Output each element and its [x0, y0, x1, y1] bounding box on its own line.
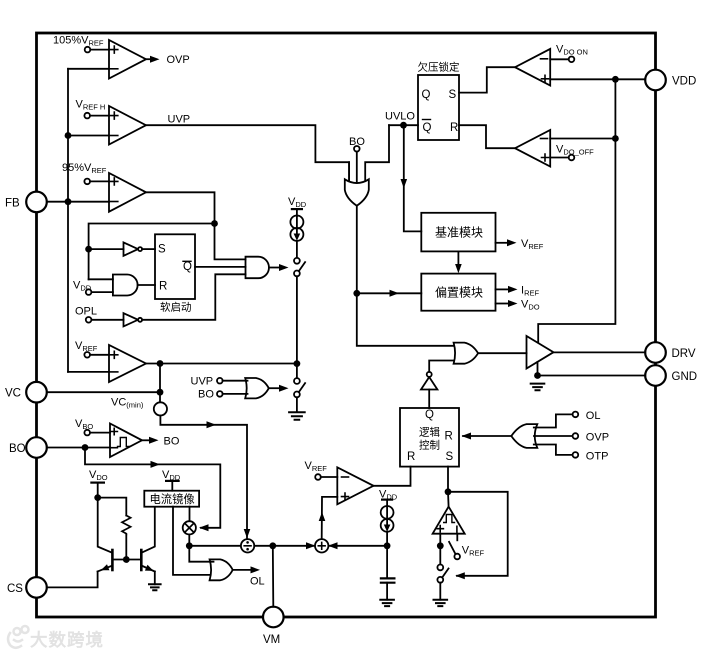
wire U17+ down to main node — [439, 534, 441, 546]
junction dot soft-start S branch — [85, 246, 92, 253]
wire S pin to comparator U7 output — [459, 67, 515, 92]
OR gate U12 (OL/OVP/OTP, pointing left) — [511, 424, 537, 448]
wire VREF terminal to U4+ — [90, 354, 109, 356]
capacitor C1 — [381, 578, 395, 582]
AND gate soft-start R — [89, 275, 155, 296]
wire VREF output of reference block — [496, 238, 544, 251]
wire node to divider — [189, 545, 241, 547]
ground under C1 — [380, 600, 394, 606]
comparator U8 (VDO_OFF, pointing left) — [515, 130, 594, 167]
wire U4 minus — [68, 371, 109, 373]
comparator U4 (VREF / VC section) — [75, 340, 146, 382]
BO terminal above U6 — [349, 136, 365, 182]
junction dot FB bus — [65, 198, 72, 205]
current source I1 (VDD, soft-start) — [288, 196, 307, 258]
switch SW1 (soft-start) — [294, 258, 305, 276]
ground under Q2 — [149, 584, 161, 590]
junction dot bias tap — [353, 290, 360, 297]
wire I2 to main node — [386, 532, 388, 546]
ground under SW3 — [434, 600, 448, 606]
junction dot BO tap — [82, 444, 89, 451]
IC boundary box — [37, 33, 656, 617]
switch SW2 — [294, 364, 305, 412]
wire U4 out down to VC(min) — [159, 364, 161, 403]
pin BO — [9, 437, 47, 458]
current mirror box (电流镜像) — [144, 491, 199, 507]
wire summer up to error amp with arrow — [319, 497, 338, 539]
wire 105%VREF terminal to U1+ — [90, 49, 109, 51]
wire multiplier to main node — [188, 534, 190, 545]
divider circle — [241, 539, 254, 552]
svg-text:Q: Q — [183, 261, 192, 273]
junction dot VC — [157, 389, 164, 396]
svg-text:软启动: 软启动 — [160, 301, 192, 314]
pin GND — [645, 365, 697, 386]
junction dot VDD node top — [612, 76, 619, 83]
comparator U14 (VBO brown-out) — [75, 418, 142, 457]
wire VC pin to node — [47, 391, 160, 393]
wire UVLO down to reference block with arrow — [401, 125, 422, 231]
VC(min) clamp circle — [111, 397, 167, 416]
wire U1 minus — [68, 68, 109, 70]
wire U12 output into R with arrow — [462, 433, 512, 440]
svg-text:VDD: VDD — [672, 76, 696, 88]
svg-text:基准模块: 基准模块 — [435, 226, 483, 240]
comparator U1 OVP (105%VREF) — [53, 35, 146, 79]
AND gate U5 (soft-start enable) — [246, 257, 289, 279]
wire Qbar to AND middle input — [195, 266, 246, 268]
svg-text:逻辑: 逻辑 — [419, 426, 440, 439]
junction dot UVLO — [400, 122, 407, 129]
junction dot VM tap — [269, 542, 276, 549]
svg-text:欠压锁定: 欠压锁定 — [418, 61, 460, 74]
junction dot VDD rail at U8 — [612, 135, 619, 142]
junction dot S node — [445, 488, 452, 495]
svg-text:电流镜像: 电流镜像 — [150, 492, 195, 506]
wire IREF output — [496, 285, 540, 298]
svg-text:S: S — [158, 244, 166, 256]
svg-text:S: S — [446, 451, 454, 463]
feedback wire S node to SW3 with arrow — [448, 492, 508, 580]
junction dot A (214.5,223.5) — [211, 220, 218, 227]
svg-text:R: R — [445, 431, 453, 443]
wire U6 output down to driver OR — [357, 206, 454, 346]
wire BO tap to multiplier with arrow — [85, 448, 220, 532]
wire logic S pin down — [447, 467, 449, 492]
OVP terminal — [534, 432, 609, 444]
wire UVLO branch into U6 — [365, 125, 389, 180]
svg-text:R: R — [407, 451, 415, 463]
comparator U2 UVP (VREF_H) — [76, 99, 147, 145]
pin VC — [5, 382, 47, 403]
wire SW1 down to node B — [296, 276, 298, 363]
svg-text:DRV: DRV — [672, 348, 696, 360]
comparator U7 (VDO_ON, pointing left) — [515, 44, 588, 86]
wire U14 output arrow BO — [142, 436, 180, 448]
wire base Q1-Q2 — [112, 559, 141, 561]
svg-text:FB: FB — [5, 198, 20, 210]
wire mirror box pin to multiplier — [189, 507, 191, 522]
svg-text:BO: BO — [164, 436, 180, 448]
junction dot base node — [123, 556, 130, 563]
junction dot node B — [294, 360, 301, 367]
current source I2 (VDD) — [379, 489, 398, 532]
junction dot VDO node — [94, 494, 101, 501]
svg-text:UVLO: UVLO — [385, 111, 415, 123]
resistor R1 — [122, 516, 131, 535]
pin VM — [263, 607, 284, 646]
svg-text:R: R — [159, 281, 167, 293]
switch SW4 (VREF select) — [449, 542, 484, 559]
svg-text:UVP: UVP — [168, 114, 191, 126]
node bus: inverting-input bus x=68 — [67, 69, 69, 372]
soft-start latch box — [155, 234, 195, 313]
error amp U16 (VREF) — [305, 460, 374, 504]
switch SW3 — [437, 546, 448, 600]
wire OPL to AND bottom input — [142, 274, 245, 320]
OL terminal — [534, 410, 601, 428]
junction dot multiplier out — [186, 542, 193, 549]
wire U2 minus — [68, 135, 109, 137]
svg-text:CS: CS — [7, 583, 23, 595]
wire node down to capacitor C1 — [386, 546, 388, 577]
wire 95%VREF terminal to U3+ — [90, 180, 109, 182]
svg-text:Q: Q — [423, 122, 432, 134]
logic control box (逻辑控制) — [400, 408, 459, 467]
wire C1 to ground — [386, 583, 388, 600]
wire U16 output to logic R pin — [374, 467, 411, 486]
svg-text:VC: VC — [5, 388, 21, 400]
VDO rail (current mirror) — [89, 469, 108, 498]
wire U8- to VDD rail — [550, 138, 615, 140]
transistor Q1 — [98, 498, 113, 572]
wire VDO output — [496, 299, 540, 312]
wire driver gnd node to GND pin — [538, 362, 646, 376]
OR gate U13 (UVP/BO) — [191, 376, 269, 401]
pin CS — [7, 577, 47, 598]
transistor Q2 — [141, 507, 155, 572]
svg-text:BO: BO — [9, 443, 26, 455]
svg-text:OTP: OTP — [586, 451, 609, 463]
UVLO latch box (欠压锁定) — [418, 61, 460, 141]
wire U3 output to soft-start node — [146, 192, 215, 223]
wire divider to summer with arrow — [254, 542, 315, 549]
svg-text:OPL: OPL — [75, 306, 97, 318]
ground under SW2 — [289, 412, 305, 419]
VDD terminal at AND input — [73, 280, 92, 295]
wire FB to U3 minus — [47, 201, 109, 203]
wire mult node to U15 top input — [189, 546, 213, 562]
driver buffer U11 — [527, 336, 554, 369]
svg-text:BO: BO — [198, 389, 214, 401]
OPL input and buffer — [75, 306, 142, 327]
wire U15 output arrow OL — [233, 566, 265, 587]
wire U1 output arrow — [146, 54, 190, 66]
inverter U10 (Q of logic control) — [421, 361, 454, 409]
comparator U3 (95%VREF) — [62, 162, 146, 212]
wire VM tap down to VM pin — [272, 546, 275, 607]
wire node A to soft-start left rail — [89, 224, 215, 280]
wire VDO node to resistor — [98, 498, 127, 516]
svg-text:OL: OL — [586, 410, 601, 422]
wire U17- stub — [456, 534, 458, 541]
junction dot U17+ node — [437, 542, 444, 549]
wire VC(min) to divider with arrow — [160, 416, 250, 539]
wire UVLO node to latch Qbar — [385, 111, 418, 126]
wire reference to bias block arrow — [455, 251, 462, 273]
wire driver to DRV pin — [554, 351, 646, 353]
wire VREF_H terminal to U2+ — [90, 115, 109, 117]
junction dot I2 node — [384, 542, 391, 549]
buffer/inverter S input — [89, 242, 155, 255]
wire resistor to base node — [125, 535, 127, 560]
pin VDD — [645, 70, 696, 91]
junction dot U2 minus — [65, 132, 72, 139]
reference block (基准模块) — [421, 213, 495, 252]
svg-text:大数跨境: 大数跨境 — [30, 630, 104, 650]
svg-text:UVP: UVP — [191, 376, 214, 388]
wire right branch into summer with arrow — [328, 542, 387, 549]
watermark logo — [8, 626, 29, 648]
svg-text:VM: VM — [263, 634, 280, 646]
svg-text:S: S — [449, 89, 457, 101]
wire node A down to AND top input — [215, 224, 246, 260]
wire UVP branch into U6 — [348, 162, 350, 180]
svg-text:OVP: OVP — [167, 54, 190, 66]
pin DRV — [645, 342, 696, 363]
svg-text:OVP: OVP — [586, 432, 609, 444]
pin FB — [5, 192, 47, 213]
wire U7+ to VDD node — [550, 78, 645, 80]
wire Q2 emitter to ground — [154, 572, 156, 585]
wire VDD rail down to driver top input — [538, 79, 615, 342]
junction dot U4 out — [157, 360, 164, 367]
OTP terminal — [534, 445, 609, 463]
wire U17 output to S node — [447, 492, 450, 507]
OR gate U6 (UVP/BO/UVLO, pointing down) — [345, 179, 369, 206]
wire U4 output to switch node — [146, 363, 297, 365]
svg-text:GND: GND — [672, 371, 698, 383]
wire R pin to comparator U8 output — [459, 125, 515, 148]
svg-text:OL: OL — [250, 576, 265, 588]
bias block (偏置模块) — [421, 274, 495, 311]
svg-text:Q: Q — [425, 409, 434, 421]
wire mirror box pin to OL gate — [173, 507, 214, 575]
junction dot driver ground — [534, 372, 541, 379]
ground under driver — [531, 384, 545, 391]
wire CS pin to Q1 emitter — [47, 572, 98, 588]
comparator U17 (hysteresis, pointing up) — [433, 507, 465, 534]
wire U13 output arrow to switch SW2 — [269, 385, 289, 392]
summer circle — [315, 539, 328, 552]
wire BO pin to U14- — [47, 447, 110, 449]
svg-text:偏置模块: 偏置模块 — [435, 285, 483, 300]
svg-text:Q: Q — [422, 89, 431, 101]
svg-text:控制: 控制 — [419, 439, 440, 452]
wire UVP: U2 output to down-gate — [146, 114, 349, 182]
svg-text:R: R — [450, 122, 458, 134]
VDD rail above mirror box — [162, 469, 181, 491]
multiplier X1 — [183, 521, 196, 534]
OR gate U15 (OL detect) — [210, 559, 233, 580]
OR gate U9 (driver input) — [454, 343, 527, 364]
wire bias input from node — [357, 290, 422, 297]
